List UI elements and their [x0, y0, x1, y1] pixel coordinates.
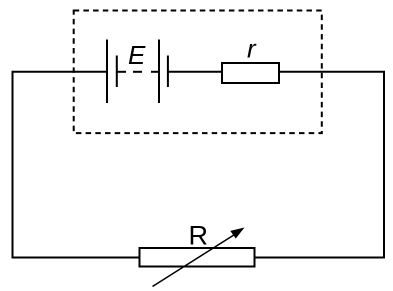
svg-text:r: r: [247, 34, 257, 64]
svg-text:E: E: [128, 40, 146, 70]
svg-text:R: R: [189, 221, 209, 251]
